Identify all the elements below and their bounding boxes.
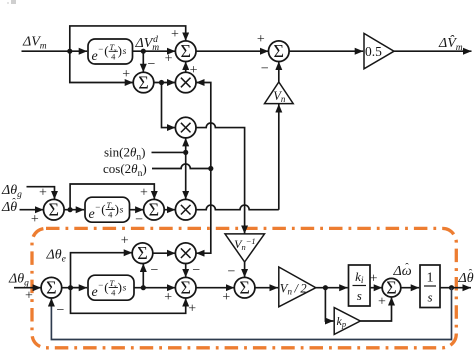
wire: input dVm to junction A — [22, 50, 88, 52]
wire: summer U7 out to multiplier M4 — [153, 252, 176, 254]
svg-text:−: − — [261, 62, 269, 77]
node H (delay D3 out) — [141, 285, 146, 290]
node F — [68, 207, 73, 212]
svg-text:s: s — [357, 288, 362, 303]
svg-text:−: − — [98, 280, 103, 290]
wire: input dTheta_g2 to summer U4 left — [14, 287, 41, 289]
gain G5 kp — [334, 308, 360, 335]
svg-text:(: ( — [104, 279, 108, 294]
svg-text:e: e — [92, 49, 98, 64]
svg-text:4: 4 — [111, 288, 116, 298]
svg-text:): ) — [118, 279, 122, 294]
svg-text:+: + — [257, 32, 265, 47]
wire: bypass F up and over to summer U6 top — [70, 184, 154, 210]
wire: summer U1 out to summer U2 — [196, 50, 269, 52]
wire: Vn gain G2 up to summer U2 bottom — [278, 62, 280, 83]
summer U1 — [175, 41, 196, 62]
svg-text:Vn / 2: Vn / 2 — [280, 282, 307, 297]
wire: block B2 out (output dTheta_hat) — [440, 287, 471, 289]
svg-text:+: + — [222, 290, 230, 305]
wire: A down to summer U3 left — [70, 51, 133, 82]
svg-text:s: s — [120, 205, 124, 215]
delay block D3 e^-(Ts/4)s — [88, 275, 134, 300]
wire: gain G3 out to block B1 (ki/s) — [316, 287, 348, 289]
wire: B down to summer U3 top — [142, 51, 144, 72]
svg-text:+: + — [122, 67, 130, 82]
svg-text:0.5: 0.5 — [365, 44, 382, 59]
wire: D up to multiplier M2 bottom — [185, 138, 187, 153]
svg-text:+: + — [190, 63, 198, 78]
svg-text:−: − — [151, 263, 159, 278]
svg-text:s: s — [123, 283, 127, 293]
wire: summer U9 out to gain G3 (Vn/2) — [255, 287, 278, 289]
wire: summer U3 out to multiplier M1 — [154, 82, 176, 84]
svg-text:+: + — [39, 186, 47, 201]
svg-text:−: − — [95, 202, 100, 212]
svg-text:−: − — [57, 303, 65, 318]
block B2 1/s — [420, 265, 440, 308]
wire: sin input to node D — [152, 151, 186, 153]
stray mark top-left — [11, 0, 16, 4]
svg-text:s: s — [123, 47, 127, 57]
svg-text:Σ: Σ — [149, 200, 159, 220]
wire: bypass A up and over to summer U1 top — [70, 26, 186, 50]
multiplier M1 — [175, 72, 196, 93]
svg-text:1: 1 — [427, 271, 434, 286]
wire: block B1 out to summer U10 left — [370, 287, 382, 289]
summer U7 — [132, 243, 153, 264]
node G — [68, 285, 73, 290]
summer U4 — [41, 277, 62, 298]
svg-text:+: + — [164, 290, 172, 305]
wire: column up into gain G2 base — [278, 104, 280, 210]
wire: D down to multiplier M3 top — [185, 152, 187, 199]
wire: summer U8 out to summer U9 left — [196, 287, 234, 289]
wire: summer U10 out to block B2 (1/s) — [401, 287, 419, 289]
summer U6 — [144, 199, 165, 220]
svg-text:s: s — [427, 290, 432, 305]
svg-text:Σ: Σ — [180, 278, 190, 298]
wire: M3 out with hops, up to gain G2 base — [196, 205, 279, 210]
svg-text:+: + — [25, 289, 33, 304]
summer U8 — [175, 277, 196, 298]
wire: cos input, hop over sin column, to node E — [152, 164, 211, 169]
svg-text:e: e — [89, 207, 95, 222]
svg-text:−: − — [98, 44, 103, 54]
gain G3 Vn/2 — [279, 267, 316, 307]
gain G2 Vn — [265, 82, 294, 104]
wire: gain G1 out (output dVm_hat) — [394, 50, 472, 52]
svg-text:Σ: Σ — [49, 200, 59, 220]
svg-text:Σ: Σ — [137, 243, 147, 263]
node D (sin) — [183, 150, 188, 155]
svg-text:(: ( — [101, 201, 105, 216]
wire: feedback J down, left, up to summer U4 bottom — [51, 288, 451, 340]
svg-text:+: + — [370, 272, 378, 287]
wire: input dTheta_g to summer U5 top — [27, 187, 55, 200]
svg-text:): ) — [118, 43, 122, 58]
gain G4 Vn^-1 — [225, 234, 265, 262]
wire: E down to multiplier M4 right side — [196, 169, 211, 254]
svg-text:+: + — [140, 185, 148, 200]
wire: delay D3 out to summer U8 left — [134, 287, 175, 289]
svg-text:4: 4 — [108, 210, 113, 220]
dash-dot PLL boundary box — [32, 228, 456, 347]
wire: input dTheta_hat to summer U5 left — [20, 209, 44, 211]
delay block D2 e^-(Ts/4)s — [85, 197, 130, 222]
svg-text:+: + — [165, 52, 173, 67]
node B (dVm_d) — [141, 49, 146, 54]
wire: cos column up into M1 right side — [196, 83, 211, 169]
svg-text:Σ: Σ — [180, 41, 190, 61]
wire: summer U2 out to gain G1 — [289, 50, 363, 52]
svg-text:−: − — [148, 57, 156, 72]
svg-text:4: 4 — [111, 51, 116, 61]
wire: G to delay D3 — [71, 287, 88, 289]
svg-text:Σ: Σ — [386, 278, 396, 298]
summer U2 — [269, 41, 290, 62]
summer U5 — [44, 199, 65, 220]
svg-text:+: + — [31, 212, 39, 227]
wire: M2 out, hop over cos column, down to gain G4 (Vn^-1) — [196, 123, 245, 234]
svg-text:e: e — [92, 285, 98, 300]
wire: I down to gain G5 (kp) — [325, 288, 333, 321]
wire: summer U6 out to multiplier M3 — [164, 209, 175, 211]
node J — [449, 285, 454, 290]
svg-text:−: − — [227, 265, 235, 280]
wire: delay D2 out to summer U6 left — [130, 209, 144, 211]
summer U9 — [234, 277, 255, 298]
gain G1 0.5 — [364, 33, 394, 68]
multiplier M3 — [175, 199, 196, 220]
svg-text:−: − — [192, 263, 200, 278]
wire: G down along bottom to summer U8 bottom — [71, 288, 186, 314]
summer U3 — [133, 72, 154, 93]
svg-text:+: + — [121, 233, 129, 248]
svg-text:ˆ: ˆ — [469, 268, 473, 280]
summer U10 — [382, 278, 401, 298]
svg-text:Σ: Σ — [138, 72, 148, 92]
svg-text:): ) — [115, 201, 119, 216]
svg-text:ˆ: ˆ — [405, 262, 409, 274]
svg-text:+: + — [171, 27, 179, 42]
svg-text:+: + — [378, 295, 386, 310]
svg-text:(: ( — [104, 43, 108, 58]
svg-text:−: − — [135, 212, 143, 227]
wire: gain G4 (Vn^-1) down to summer U9 top — [244, 262, 246, 277]
node A (input split) — [67, 49, 72, 54]
wire: multiplier M4 down to summer U8 top — [185, 264, 187, 278]
wire: gain G5 out and up to summer U10 bottom — [360, 297, 391, 321]
wire: delay D1 out to summer U1 left — [133, 50, 176, 52]
svg-text:+: + — [188, 302, 196, 317]
wire: summer U5 out to delay D2 — [64, 209, 84, 211]
wire: node G up and to summer U7 left (dTheta_e) — [71, 253, 133, 288]
node I — [323, 285, 328, 290]
node E (cos) — [208, 166, 213, 171]
wire: summer U4 out — [62, 287, 81, 289]
svg-text:Σ: Σ — [274, 41, 284, 61]
svg-text:Σ: Σ — [239, 278, 249, 298]
wire: delay node H up to summer U7 bottom — [142, 264, 144, 288]
wire: multiplier M1 up to summer U1 bottom — [185, 62, 187, 73]
wire: C down to multiplier M2 left — [162, 83, 176, 128]
svg-text:Σ: Σ — [46, 278, 56, 298]
node C — [159, 80, 164, 85]
block B1 ki/s — [349, 265, 371, 306]
multiplier M4 — [175, 243, 196, 264]
delay block D1 e^-(Ts/4)s — [88, 39, 133, 64]
multiplier M2 — [175, 117, 196, 138]
svg-text:ˆ: ˆ — [12, 197, 16, 209]
svg-text:ΔVmd: ΔVmd — [135, 35, 160, 53]
